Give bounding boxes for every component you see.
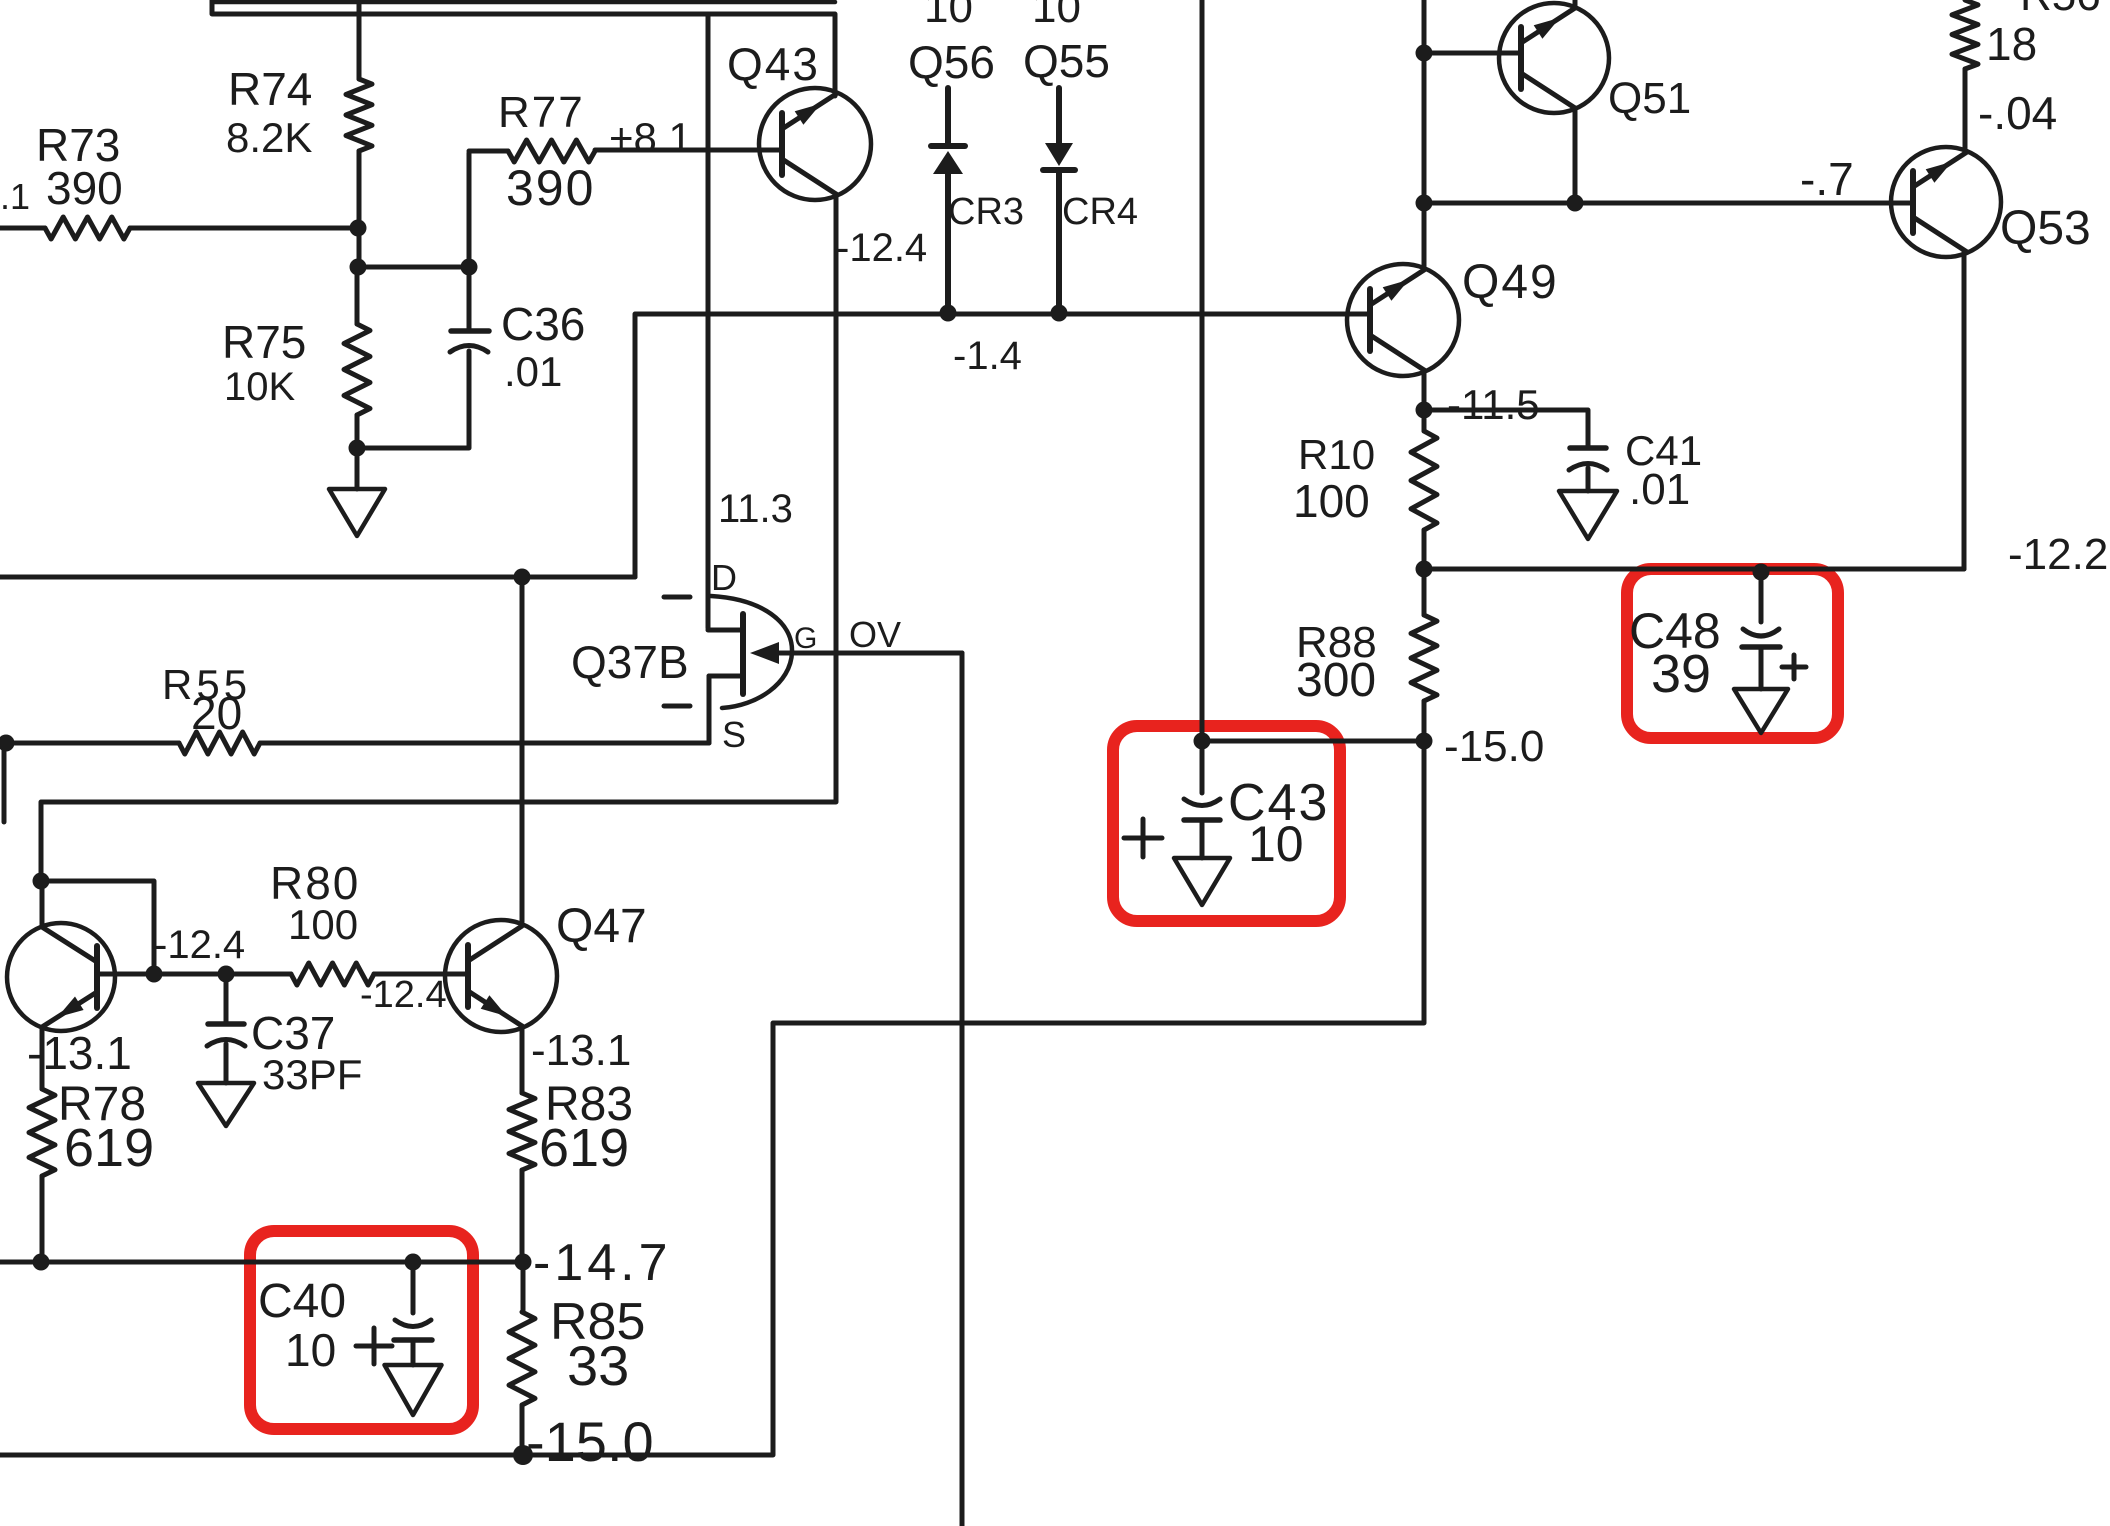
capacitor C36 bbox=[450, 153, 585, 395]
wire R75 leads bbox=[355, 267, 360, 448]
wire Q53 collector bbox=[1965, 69, 2057, 152]
wire Q51 base bbox=[1424, 51, 1521, 56]
svg-text:-11.5: -11.5 bbox=[1447, 381, 1540, 428]
svg-text:Q51: Q51 bbox=[1608, 74, 1691, 123]
node junction C48 tap bbox=[1753, 564, 1770, 581]
wire R83 bottom bbox=[520, 1170, 525, 1262]
ground below C41 bbox=[1559, 491, 1617, 539]
svg-text:.1: .1 bbox=[0, 176, 30, 217]
capacitor C43 bbox=[1184, 741, 1329, 872]
wire Q47 collector vertical bbox=[520, 577, 525, 922]
svg-text:Q55: Q55 bbox=[1023, 35, 1110, 87]
svg-text:-.7: -.7 bbox=[1800, 153, 1854, 205]
wire Q51 collector stub bbox=[1573, 0, 1578, 8]
resistor R88 bbox=[1296, 569, 1437, 741]
wire R77 left corner bbox=[469, 149, 508, 154]
label -14.7 bbox=[533, 1234, 672, 1292]
svg-text:Q56: Q56 bbox=[908, 36, 995, 88]
svg-text:10: 10 bbox=[1248, 816, 1304, 872]
svg-text:C36: C36 bbox=[501, 298, 585, 350]
node junction Q47 collector tap bbox=[514, 569, 531, 586]
label Q56 bbox=[908, 0, 995, 88]
node junction CR4 on bus bbox=[1051, 305, 1068, 322]
svg-text:.01: .01 bbox=[504, 348, 562, 395]
svg-text:619: 619 bbox=[539, 1118, 629, 1178]
transistor Q51 bbox=[1499, 3, 1691, 123]
node junction -.7 row left bbox=[1416, 195, 1433, 212]
svg-text:8.2K: 8.2K bbox=[226, 114, 312, 161]
diode CR3 bbox=[931, 146, 1024, 312]
resistor R55 bbox=[6, 661, 709, 754]
svg-text:Q37B: Q37B bbox=[571, 636, 689, 688]
svg-text:33: 33 bbox=[567, 1334, 629, 1397]
resistor R77 bbox=[498, 88, 595, 216]
label -13.1 right bbox=[531, 1026, 631, 1075]
wire R78 bottom bbox=[40, 1176, 45, 1262]
wire Q49 emitter to junction bbox=[1422, 370, 1427, 410]
svg-text:-12.4: -12.4 bbox=[360, 974, 447, 1016]
svg-text:100: 100 bbox=[1293, 475, 1370, 527]
wire base row bbox=[97, 972, 291, 977]
svg-text:10: 10 bbox=[285, 1324, 336, 1376]
svg-text:10K: 10K bbox=[224, 365, 295, 409]
node junction at 357,267 bbox=[350, 259, 367, 276]
capacitor C48 bbox=[1629, 569, 1780, 704]
node junction Q51 base tap bbox=[1416, 45, 1433, 62]
svg-text:390: 390 bbox=[46, 162, 123, 214]
highlight box around C40 bbox=[250, 1231, 473, 1429]
svg-text:-12.4: -12.4 bbox=[154, 923, 245, 967]
highlight box around C48 bbox=[1627, 569, 1838, 738]
wire -15.0 link bbox=[1202, 739, 1424, 744]
node junction base jog bbox=[146, 966, 163, 983]
label -13.1 left bbox=[27, 1027, 132, 1079]
svg-text:CR3: CR3 bbox=[948, 191, 1024, 233]
transistor Q43 bbox=[727, 38, 871, 200]
fet Q37B body bbox=[571, 557, 817, 755]
wire source lead to R55 run bbox=[707, 676, 712, 743]
node junction left column collector bbox=[33, 873, 50, 890]
svg-text:39: 39 bbox=[1651, 644, 1711, 704]
wire -.7 row bbox=[1424, 153, 1913, 205]
wire Q49 collector vertical from top edge bbox=[1422, 0, 1427, 270]
svg-text:100: 100 bbox=[288, 901, 358, 948]
resistor R75 bbox=[222, 316, 370, 415]
fet Q37B polarity dashes bbox=[664, 597, 690, 706]
node junction at C36 column bbox=[461, 259, 478, 276]
plus sign C43 bbox=[1124, 819, 1162, 857]
resistor R73 bbox=[0, 119, 359, 239]
label -15.0 bottom bbox=[526, 1410, 654, 1473]
plus sign C48 bbox=[1782, 655, 1806, 679]
wire stub below R55 node bbox=[2, 743, 7, 822]
wire Q51 emitter bbox=[1573, 108, 1578, 203]
wire Q43 emitter long run to lower-left bbox=[41, 194, 836, 881]
node junction R78 bottom bbox=[33, 1254, 50, 1271]
wire -14.7 net bbox=[0, 1260, 523, 1265]
wire long vertical from top to C43 bbox=[1200, 0, 1205, 740]
transistor Q47 bbox=[445, 900, 647, 1032]
svg-text:33PF: 33PF bbox=[262, 1051, 362, 1098]
wire gate 0V with arrow bbox=[750, 614, 962, 664]
svg-text:-12.4: -12.4 bbox=[836, 226, 927, 270]
node junction -12.2 row bbox=[1416, 561, 1433, 578]
svg-text:11.3: 11.3 bbox=[718, 487, 793, 531]
highlight box around C43 bbox=[1113, 726, 1340, 921]
wire R85 bottom bbox=[520, 1405, 525, 1455]
wire -1.4 bus bbox=[635, 314, 1369, 577]
node junction C37 tap bbox=[218, 966, 235, 983]
wire Q47 emitter bbox=[520, 1026, 525, 1093]
node junction R85 on -15 bus bbox=[513, 1445, 533, 1465]
svg-text:Q53: Q53 bbox=[2000, 202, 2091, 255]
wire 0V vertical to bottom edge bbox=[960, 653, 965, 1526]
wire left transistor collector bbox=[40, 881, 45, 927]
wire R74 bottom to junction bbox=[357, 151, 362, 267]
svg-text:10: 10 bbox=[1032, 0, 1081, 32]
svg-text:20: 20 bbox=[191, 687, 242, 739]
node junction R83/R85 bbox=[515, 1254, 532, 1271]
node junction C43 top bbox=[1194, 733, 1211, 750]
svg-text:-13.1: -13.1 bbox=[27, 1027, 132, 1079]
svg-text:D: D bbox=[711, 557, 737, 598]
wire horizontal net y577 bbox=[0, 575, 635, 580]
svg-text:Q49: Q49 bbox=[1462, 256, 1559, 309]
wire R10 to -12.2 node bbox=[1422, 530, 1427, 569]
wire -12.2 row bbox=[1424, 530, 2108, 579]
svg-text:-13.1: -13.1 bbox=[531, 1026, 631, 1075]
label -12.4 right bbox=[360, 974, 447, 1016]
label Q55 bbox=[1023, 0, 1110, 87]
wire R74 top stub from top edge bbox=[357, 0, 362, 79]
svg-text:+8.1: +8.1 bbox=[609, 114, 692, 161]
node junction CR3 on bus bbox=[940, 305, 957, 322]
label -15.0 mid bbox=[1444, 722, 1544, 771]
svg-text:C40: C40 bbox=[258, 1275, 346, 1328]
wire top bus with corner stub at x212 to Q43 collector bbox=[212, 0, 835, 96]
node junction Q49 emitter bbox=[1416, 402, 1433, 419]
diode CR4 bbox=[1043, 143, 1138, 312]
svg-text:OV: OV bbox=[849, 614, 901, 655]
svg-text:G: G bbox=[794, 622, 817, 655]
label -12.4 at Q43 emitter bbox=[836, 226, 927, 270]
label -1.4 bbox=[953, 334, 1022, 378]
ground below C43 bbox=[1174, 858, 1230, 905]
node junction C40 tap bbox=[405, 1254, 422, 1271]
svg-text:390: 390 bbox=[506, 160, 595, 216]
svg-text:-14.7: -14.7 bbox=[533, 1234, 672, 1292]
svg-text:-.04: -.04 bbox=[1978, 87, 2057, 139]
ground below R75 bbox=[329, 448, 385, 536]
transistor Q45 left bbox=[7, 923, 115, 1031]
capacitor C37 bbox=[207, 974, 362, 1098]
transistor Q49 bbox=[1347, 256, 1559, 376]
svg-text:10: 10 bbox=[924, 0, 973, 32]
wire C36 bottom link bbox=[357, 351, 469, 448]
label -12.4 left bbox=[154, 923, 245, 967]
svg-text:CR4: CR4 bbox=[1062, 191, 1138, 233]
svg-text:-15.0: -15.0 bbox=[526, 1410, 654, 1473]
ground below C37 bbox=[198, 1083, 254, 1126]
svg-text:-12.2: -12.2 bbox=[2008, 530, 2108, 579]
svg-text:R74: R74 bbox=[228, 63, 312, 115]
node junction -15.0 R88 bbox=[1416, 733, 1433, 750]
wire 11.3 drain line bbox=[708, 14, 793, 628]
resistor R85 bbox=[509, 1262, 645, 1405]
svg-text:R10: R10 bbox=[1298, 431, 1375, 478]
node junction R73/R74 bbox=[350, 220, 367, 237]
svg-text:Q47: Q47 bbox=[556, 900, 647, 953]
svg-text:619: 619 bbox=[64, 1118, 154, 1178]
node junction R75 bottom bbox=[349, 440, 366, 457]
wire junction row to C36 top node bbox=[358, 265, 469, 270]
resistor R56 bbox=[1952, 0, 2101, 70]
resistor R74 bbox=[226, 63, 372, 161]
wire R77 to Q43 base bbox=[595, 114, 782, 161]
svg-text:.01: .01 bbox=[1629, 465, 1690, 514]
svg-text:R77: R77 bbox=[498, 88, 585, 137]
svg-text:300: 300 bbox=[1296, 654, 1376, 707]
resistor R10 bbox=[1293, 410, 1437, 530]
wire left emitter to R78 bbox=[40, 1028, 45, 1089]
svg-text:-15.0: -15.0 bbox=[1444, 722, 1544, 771]
wire C41 branch bbox=[1424, 410, 1588, 448]
svg-text:R56: R56 bbox=[2020, 0, 2101, 20]
ground below C40 bbox=[385, 1365, 442, 1415]
resistor R78 bbox=[29, 1078, 154, 1178]
capacitor C41 bbox=[1569, 427, 1702, 514]
svg-text:S: S bbox=[722, 714, 746, 755]
diode CR4 anode line bbox=[1056, 88, 1062, 143]
label -11.5 bbox=[1447, 381, 1540, 428]
svg-text:R75: R75 bbox=[222, 316, 306, 368]
capacitor C40 bbox=[258, 1262, 432, 1376]
svg-text:18: 18 bbox=[1986, 18, 2037, 70]
resistor R83 bbox=[509, 1078, 633, 1178]
wire jog from left column to base column bbox=[41, 881, 154, 974]
node junction Q51 emitter row bbox=[1567, 195, 1584, 212]
ground below C48 bbox=[1734, 689, 1788, 733]
wire Q53 emitter long bbox=[1962, 252, 1967, 569]
wire Q47 base lead bbox=[374, 972, 468, 977]
resistor R80 bbox=[270, 857, 468, 985]
node junction R55 left bbox=[0, 735, 15, 752]
diode CR3 cathode line bbox=[945, 88, 951, 146]
transistor Q53 bbox=[1891, 147, 2091, 257]
svg-text:Q43: Q43 bbox=[727, 38, 820, 90]
wire -15.0 bottom bus bbox=[0, 740, 1424, 1455]
svg-text:-1.4: -1.4 bbox=[953, 334, 1022, 378]
plus sign C40 bbox=[356, 1328, 392, 1364]
